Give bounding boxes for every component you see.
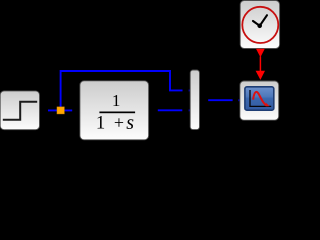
junction: link split point (orange square) xyxy=(57,107,64,114)
scope trace curve xyxy=(253,92,266,106)
block: step input source body xyxy=(0,91,39,130)
arrowhead: clock event output port xyxy=(256,49,265,58)
scope axes xyxy=(250,90,271,106)
wire: step output into junction and transfer function input xyxy=(48,109,72,111)
port: mux input 2 nub xyxy=(189,109,191,111)
icon: step waveform xyxy=(3,102,37,120)
scope screen xyxy=(245,87,274,110)
event link: clock to scope (red line) xyxy=(259,57,261,72)
clock face circle xyxy=(242,7,278,43)
svg-text:1: 1 xyxy=(96,113,105,134)
wire: transfer function output to mux input 2 xyxy=(158,109,183,111)
port: mux input 1 nub xyxy=(189,90,191,92)
svg-text:+: + xyxy=(114,112,124,132)
svg-text:1: 1 xyxy=(112,91,121,110)
label: fraction bar xyxy=(99,112,135,114)
scope trace arrow tip xyxy=(266,103,270,107)
arrowhead: event link end at scope xyxy=(256,71,265,80)
svg-text:s: s xyxy=(126,112,134,134)
wire: mux output to scope input xyxy=(208,99,232,101)
block: mux body xyxy=(190,70,199,130)
block: transfer function body xyxy=(80,81,149,140)
clock hands xyxy=(253,15,267,28)
wire: branch from junction up and over to mux input 1 xyxy=(61,71,183,108)
block: clock body xyxy=(240,1,279,49)
port: scope input nub xyxy=(238,99,240,101)
block: scope body xyxy=(240,81,279,120)
